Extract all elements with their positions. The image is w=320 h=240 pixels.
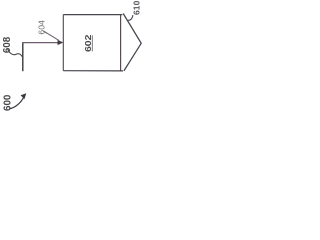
wire 604 horizontal [22,42,60,44]
arrow 600 [9,97,24,109]
leader 608 [8,50,23,57]
svg-text:610: 610 [131,0,141,15]
leader 610 [127,15,133,20]
chevron 610 [123,14,141,71]
box 602 [63,15,123,71]
svg-text:608: 608 [2,36,13,53]
arrowhead 600 [21,93,27,99]
wire 608 vertical [22,43,24,72]
leader 604 [43,31,59,41]
underline 602 [91,35,93,51]
arrowhead 604 [58,40,64,45]
